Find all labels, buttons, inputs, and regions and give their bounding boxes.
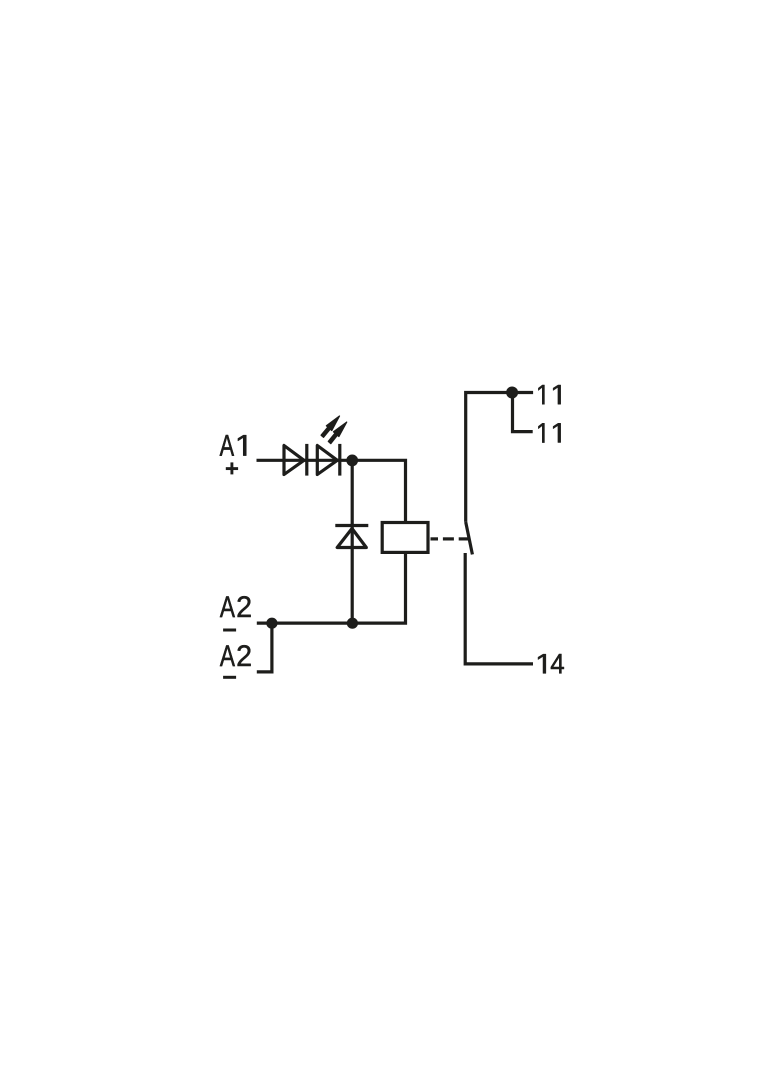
junction node 11 [506, 387, 518, 399]
LED arrow 1 [321, 416, 339, 437]
terminal label A1 [220, 435, 247, 456]
dashed actuator link dash 1 [431, 537, 439, 540]
wire stub second 11 [513, 393, 533, 432]
wire contact 14 [465, 553, 533, 664]
LED D2 [317, 444, 340, 476]
junction node A1/coil [346, 455, 358, 467]
switch lever contact [466, 522, 473, 555]
diode D3 freewheel [335, 526, 368, 548]
terminal label A2 lower [220, 645, 251, 666]
dashed actuator link dash 3 [459, 537, 470, 540]
junction node A2 terminal [266, 618, 277, 629]
dashed actuator link dash 2 [443, 537, 454, 540]
relay coil K1 [382, 523, 428, 553]
polarity minus upper [223, 629, 236, 632]
wire freewheel branch vertical [351, 460, 354, 623]
wire contact 11 top [466, 393, 533, 522]
polarity plus [226, 462, 238, 474]
terminal label A2 upper [220, 596, 251, 617]
diode D1 series [284, 444, 307, 476]
LED arrow 2 [328, 422, 346, 444]
junction node A2/freewheel [347, 618, 358, 629]
contact label 11 first [538, 385, 560, 404]
contact label 14 [538, 654, 564, 673]
contact label 11 second [538, 423, 560, 442]
polarity minus lower [223, 676, 236, 679]
wire A2 stub [257, 623, 272, 672]
wire A1 horizontal to coil top [257, 460, 406, 522]
wire coil bottom to A2 rail [257, 553, 406, 624]
